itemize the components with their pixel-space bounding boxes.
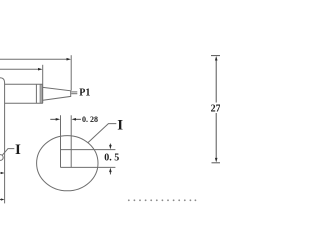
svg-text:0. 28: 0. 28: [82, 115, 98, 124]
svg-text:I: I: [15, 142, 21, 158]
svg-text:I: I: [117, 117, 123, 133]
svg-text:27: 27: [211, 104, 220, 115]
svg-text:P1: P1: [79, 87, 90, 98]
svg-text:0. 5: 0. 5: [104, 152, 119, 163]
